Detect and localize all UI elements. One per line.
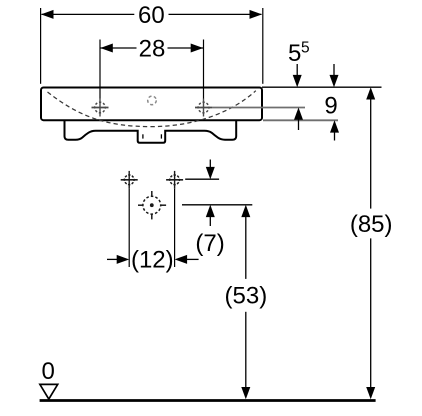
- dimension 60 arrow left: [41, 10, 54, 19]
- anchor level line for dim 7: [185, 178, 219, 180]
- dimension 53 line: [245, 216, 247, 279]
- dimension 85 line: [370, 99, 372, 209]
- basin interior dashed curve: [48, 91, 256, 127]
- dimension 12 left arrow: [107, 258, 118, 260]
- dimension 28 arrow right: [191, 44, 204, 53]
- dimension 53 top arrow (up): [241, 205, 250, 217]
- dimension 12 extension line right: [174, 189, 176, 267]
- basin bottom reference line (gray): [263, 119, 338, 121]
- dimension 28 extension line right: [203, 40, 205, 99]
- rim level reference line: [262, 86, 382, 88]
- dimension 60 extension line right: [262, 8, 264, 84]
- dimension 7 lower arrow (up): [206, 205, 215, 217]
- trap box inner ticks: [142, 134, 144, 138]
- dimension 28 arrow left: [100, 44, 113, 53]
- wall anchor symbol right: [166, 171, 183, 189]
- dimension 85 bottom arrow (down): [366, 387, 375, 399]
- dimension 60 extension line left: [40, 8, 42, 84]
- drain centre dot: [150, 203, 154, 207]
- tap hole symbol right: [195, 99, 212, 117]
- dimension 60 arrow right: [250, 10, 263, 19]
- overflow dashed circle: [148, 96, 157, 105]
- svg-text:60: 60: [138, 2, 165, 29]
- svg-text:(12): (12): [131, 246, 174, 273]
- svg-text:5: 5: [288, 40, 301, 67]
- svg-text:(7): (7): [195, 230, 224, 257]
- floor line: [40, 399, 376, 402]
- drain centre mark arms: [138, 191, 166, 219]
- dimension 5.5 lower arrow (up): [294, 108, 303, 120]
- washbasin underside profile with trap box: [65, 121, 237, 143]
- svg-text:28: 28: [139, 36, 166, 63]
- dimension 5.5 upper arrow (down): [296, 64, 298, 77]
- washbasin body outline: [41, 88, 262, 121]
- datum zero triangle: [40, 384, 58, 399]
- svg-text:(85): (85): [350, 211, 393, 238]
- svg-text:5: 5: [301, 40, 310, 57]
- tap centre reference line (gray): [212, 107, 305, 109]
- dimension 53 bottom arrow (down): [241, 387, 250, 399]
- dimension 12 extension line left: [128, 189, 130, 267]
- svg-text:0: 0: [42, 358, 55, 385]
- dimension 28 extension line left: [99, 40, 101, 99]
- drain dashed circle: [143, 196, 161, 214]
- dimension 28 line: [100, 47, 137, 49]
- dimension 9 upper arrow (down): [333, 64, 335, 77]
- drain level line for dims 7 and 53: [182, 204, 252, 206]
- svg-text:9: 9: [324, 93, 337, 120]
- dimension 9 lower arrow (up): [330, 120, 339, 132]
- svg-text:(53): (53): [225, 283, 268, 310]
- dimension 85 top arrow (up): [366, 87, 375, 99]
- dimension 7 upper arrow (down): [209, 160, 211, 170]
- wall anchor symbol left: [121, 171, 138, 189]
- tap hole symbol left: [92, 99, 109, 117]
- dimension 60 line: [42, 13, 135, 15]
- dimension 12 right arrow: [175, 255, 188, 264]
